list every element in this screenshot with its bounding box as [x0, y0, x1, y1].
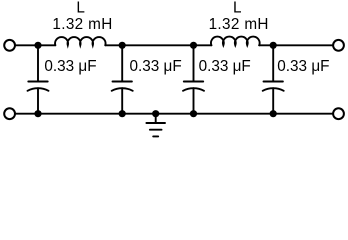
- svg-text:L: L: [233, 0, 242, 17]
- capacitor C2 curved plate: [112, 88, 133, 91]
- capacitor C3 curved plate: [183, 88, 204, 91]
- capacitor C4 flat plate: [264, 81, 283, 83]
- terminal port P3 top-right: [333, 40, 344, 51]
- svg-text:0.33 μF: 0.33 μF: [130, 58, 182, 75]
- capacitor C4 bottom lead: [272, 88, 274, 114]
- wire top rail: port P1 to inductor L1: [16, 44, 55, 46]
- ground bar 1: [146, 122, 165, 124]
- wire top rail: inductor L1 to inductor L2: [105, 44, 211, 46]
- svg-text:1.32 mH: 1.32 mH: [209, 16, 269, 33]
- capacitor C3 flat plate: [184, 81, 203, 83]
- svg-text:0.33 μF: 0.33 μF: [277, 58, 329, 75]
- wire top rail: inductor L2 to port P3: [259, 44, 332, 46]
- capacitor C4 curved plate: [263, 88, 284, 91]
- junction node top at C1: [34, 42, 41, 49]
- capacitor C4 top lead: [272, 45, 274, 81]
- junction node bottom at C4: [270, 110, 277, 117]
- ground bar 3: [153, 135, 158, 137]
- junction node bottom at C1: [34, 110, 41, 117]
- terminal port P2 bottom-left: [4, 108, 15, 119]
- terminal port P4 bottom-right: [333, 108, 344, 119]
- capacitor C1 curved plate: [28, 88, 49, 91]
- capacitor C3 top lead: [193, 45, 195, 81]
- ground lead: [155, 114, 157, 123]
- capacitor C2 top lead: [121, 45, 123, 81]
- svg-text:1.32 mH: 1.32 mH: [52, 16, 112, 33]
- capacitor C1 flat plate: [28, 81, 47, 83]
- capacitor C1 bottom lead: [37, 88, 39, 114]
- junction node top at C3: [190, 42, 197, 49]
- junction node top at C2: [119, 42, 126, 49]
- capacitor C2 bottom lead: [121, 88, 123, 114]
- svg-text:L: L: [76, 0, 85, 17]
- inductor L2 coil: [211, 37, 260, 46]
- wire bottom rail: [16, 113, 332, 115]
- junction node bottom at C2: [119, 110, 126, 117]
- svg-text:0.33 μF: 0.33 μF: [199, 58, 251, 75]
- inductor L1 coil: [55, 37, 106, 45]
- ground bar 2: [150, 129, 162, 131]
- junction node top at C4: [270, 42, 277, 49]
- capacitor C2 flat plate: [113, 81, 132, 83]
- junction node at ground: [152, 110, 159, 117]
- svg-text:0.33 μF: 0.33 μF: [44, 58, 96, 75]
- capacitor C1 top lead: [37, 45, 39, 81]
- junction node bottom at C3: [190, 110, 197, 117]
- terminal port P1 top-left: [4, 40, 15, 51]
- capacitor C3 bottom lead: [193, 88, 195, 114]
